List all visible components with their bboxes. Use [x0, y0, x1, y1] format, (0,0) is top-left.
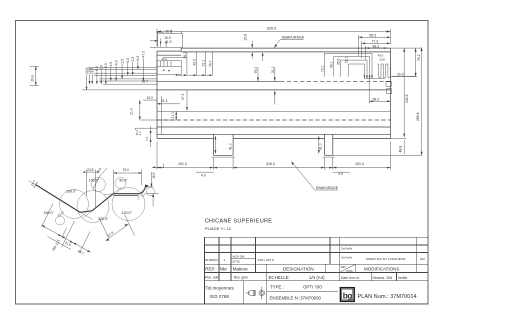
dim 626.0 overall	[157, 29, 391, 46]
right stacked dims 85.3 / 77.3 / 66.3	[359, 35, 391, 60]
svg-text:REP.: REP.	[205, 267, 215, 272]
svg-text:Dessine: Dessine	[373, 276, 385, 280]
svg-text:72.1: 72.1	[320, 65, 324, 72]
svg-text:49.0: 49.0	[193, 59, 197, 66]
ebavurage label top	[274, 39, 303, 47]
svg-text:RHDR03: RHDR03	[205, 258, 218, 262]
svg-text:151.0: 151.0	[355, 162, 364, 166]
svg-text:41.0: 41.0	[319, 143, 323, 150]
svg-text:6.0: 6.0	[114, 60, 118, 65]
left tick dimension cluster	[82, 58, 157, 90]
title block	[205, 237, 429, 304]
svg-text:15.8: 15.8	[244, 34, 248, 41]
svg-text:1/4 (A4): 1/4 (A4)	[309, 275, 325, 280]
svg-text:150.0°: 150.0°	[44, 211, 55, 215]
svg-text:48.8: 48.8	[399, 146, 403, 153]
svg-text:6.0: 6.0	[136, 56, 140, 61]
comb right end zigzag	[378, 64, 391, 77]
svg-text:INOX 304: INOX 304	[233, 255, 245, 259]
svg-text:9.6: 9.6	[91, 68, 95, 73]
svg-text:150.0°: 150.0°	[66, 189, 77, 193]
svg-text:21.4: 21.4	[161, 99, 168, 103]
svg-text:37.3: 37.3	[181, 94, 185, 101]
svg-text:90.0°: 90.0°	[119, 179, 128, 183]
svg-text:OPTI 700: OPTI 700	[303, 284, 322, 289]
solid line mid1	[157, 89, 391, 91]
svg-text:58.3: 58.3	[373, 97, 380, 101]
svg-text:20.8: 20.8	[30, 75, 34, 82]
profile end tick	[34, 182, 38, 188]
svg-text:2.1: 2.1	[138, 131, 142, 135]
svg-text:MODIF M.F ET LONGUEUR: MODIF M.F ET LONGUEUR	[366, 257, 406, 261]
svg-text:REV: REV	[341, 266, 346, 269]
svg-text:26.1: 26.1	[183, 52, 187, 59]
profile top dims	[87, 168, 142, 207]
right vertical dims 76.2 / 240.6 / 289.4	[333, 48, 422, 156]
bottom tab left	[212, 134, 214, 155]
isolated 20.8 dim far left	[30, 66, 39, 85]
svg-text:20.8: 20.8	[87, 168, 94, 172]
svg-text:Date m.m.m.: Date m.m.m.	[341, 276, 360, 280]
svg-text:20.8: 20.8	[379, 57, 385, 61]
svg-text:316.0: 316.0	[266, 162, 275, 166]
angle arc circles	[56, 178, 155, 226]
solid line mid2	[157, 126, 391, 128]
ebavurage label bottom	[292, 162, 339, 191]
svg-text:26.0: 26.0	[165, 29, 172, 33]
bottom tab right	[324, 134, 326, 155]
svg-text:PLIAGE Y= 12: PLIAGE Y= 12	[205, 226, 232, 231]
svg-text:EBAVURAGE: EBAVURAGE	[282, 35, 305, 39]
projection symbol	[246, 287, 265, 299]
svg-text:EBAVURAGE: EBAVURAGE	[316, 186, 339, 190]
svg-text:PLAN Num.: 37M70014: PLAN Num.: 37M70014	[358, 294, 417, 300]
svg-text:1: 1	[224, 258, 226, 262]
faint mid line	[157, 110, 391, 112]
svg-text:TYPE :: TYPE :	[270, 284, 284, 289]
svg-text:4.0: 4.0	[109, 62, 113, 67]
svg-text:Rev. gam.: Rev. gam.	[234, 276, 249, 280]
svg-text:26.1: 26.1	[344, 56, 348, 63]
svg-text:79.0: 79.0	[254, 67, 258, 74]
16.0 dim right	[140, 164, 164, 207]
svg-text:35.6: 35.6	[336, 58, 340, 65]
dim 41.0 tab dim lines	[215, 136, 318, 154]
svg-text:bg: bg	[343, 291, 353, 300]
svg-text:2.0: 2.0	[120, 59, 124, 64]
svg-text:2.0: 2.0	[131, 57, 135, 62]
svg-text:626.0: 626.0	[267, 26, 276, 30]
lower-left small dims of main view	[135, 90, 187, 147]
left edge	[156, 51, 158, 138]
svg-text:10.0: 10.0	[147, 96, 154, 100]
center vertical dims 79.0 21.1	[258, 67, 275, 105]
svg-text:ENSEMBLE N :37M70930: ENSEMBLE N :37M70930	[270, 296, 322, 301]
svg-text:Da/Ye/Ne: Da/Ye/Ne	[342, 257, 353, 260]
svg-text:21.1: 21.1	[171, 112, 175, 119]
svg-text:ECHELLE:: ECHELLE:	[269, 275, 290, 280]
svg-text:56.1: 56.1	[330, 61, 334, 68]
svg-text:240.6: 240.6	[405, 94, 409, 103]
svg-text:MODIFICATIONS: MODIFICATIONS	[364, 267, 399, 272]
svg-text:289.4: 289.4	[416, 112, 420, 121]
svg-text:41.0: 41.0	[229, 143, 233, 150]
svg-text:DN: DN	[387, 275, 393, 280]
bend construction extension lines	[29, 181, 139, 220]
svg-text:41.3: 41.3	[165, 40, 172, 44]
bottom edge	[157, 133, 391, 135]
bend line dashed 2	[157, 119, 391, 121]
svg-text:Rev. nom.: Rev. nom.	[205, 276, 220, 280]
profile polyline	[36, 185, 146, 213]
svg-text:Tol.moyennes: Tol.moyennes	[205, 286, 234, 291]
svg-text:72.1: 72.1	[201, 60, 205, 67]
svg-text:AM: AM	[420, 257, 425, 261]
svg-text:120.0°: 120.0°	[98, 217, 109, 221]
svg-text:16.2: 16.2	[162, 57, 168, 61]
svg-text:6.0: 6.0	[104, 63, 108, 68]
svg-text:16.0: 16.0	[152, 172, 156, 179]
svg-text:150.0°: 150.0°	[89, 179, 100, 183]
svg-text:Matiere: Matiere	[233, 267, 249, 272]
svg-text:76.7: 76.7	[208, 60, 212, 67]
svg-text:2.0: 2.0	[100, 65, 104, 70]
svg-text:47.3: 47.3	[142, 51, 146, 58]
bend line dashed	[157, 81, 280, 83]
svg-text:26.7: 26.7	[142, 80, 149, 84]
svg-text:20.0: 20.0	[397, 72, 404, 76]
svg-text:4.0: 4.0	[201, 174, 206, 178]
svg-text:Da/Ye/Ne: Da/Ye/Ne	[342, 248, 353, 251]
svg-text:76.2: 76.2	[417, 54, 421, 61]
svg-text:4.0: 4.0	[338, 172, 343, 176]
svg-text:21.3: 21.3	[130, 108, 134, 115]
main part top edge	[157, 48, 391, 157]
svg-text:85.3: 85.3	[370, 34, 377, 38]
svg-text:Verifie: Verifie	[398, 276, 407, 280]
svg-text:21.1: 21.1	[271, 66, 275, 73]
svg-text:66.3: 66.3	[373, 44, 380, 48]
right edge	[390, 48, 392, 138]
svg-text:(STG): (STG)	[233, 260, 240, 264]
second top line	[181, 51, 390, 53]
bq logo	[340, 288, 354, 302]
svg-text:6.0: 6.0	[126, 58, 130, 63]
svg-text:DATE: DATE	[347, 270, 354, 273]
right mid nested bracket dims	[324, 53, 391, 93]
svg-text:75.0: 75.0	[123, 168, 130, 172]
title block diagonal rev/date cell	[339, 264, 355, 272]
svg-text:Nbr: Nbr	[220, 267, 228, 272]
bottom dims 151.0 316.0 151.0	[157, 142, 391, 173]
svg-text:ISO 2768: ISO 2768	[210, 294, 230, 299]
svg-text:DESIGNATION: DESIGNATION	[283, 267, 314, 272]
svg-text:436 x 287.8: 436 x 287.8	[258, 258, 274, 262]
profile lower-left extension lines	[42, 204, 135, 253]
svg-text:151.0: 151.0	[178, 162, 187, 166]
svg-text:77.3: 77.3	[372, 40, 379, 44]
svg-text:CHICANE SUPERIEURE: CHICANE SUPERIEURE	[205, 218, 273, 224]
svg-text:5.2: 5.2	[145, 136, 149, 140]
border frame	[16, 21, 428, 305]
svg-text:120.0°: 120.0°	[122, 211, 133, 215]
left mid nested bracket dims	[157, 52, 212, 75]
dim 58.3	[369, 78, 390, 103]
left top small dims 10.0 / 4.0	[150, 30, 182, 48]
